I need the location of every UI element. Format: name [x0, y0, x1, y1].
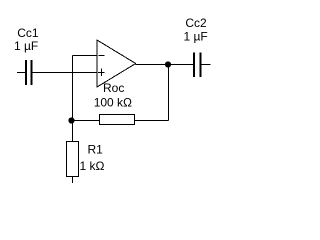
wire R1 bottom stub: [72, 177, 74, 184]
wire feedback vertical (node A): [72, 56, 74, 142]
capacitor Cc2 plates: [193, 53, 195, 78]
wire Cc1 to op-amp non-inverting input: [33, 72, 97, 74]
wire output node down: [168, 65, 170, 121]
wire op-amp output: [136, 64, 193, 66]
svg-text:1 µF: 1 µF: [184, 30, 208, 44]
resistor Roc body: [100, 115, 135, 125]
svg-text:Cc2: Cc2: [185, 16, 207, 30]
op-amp plus symbol: [98, 72, 105, 74]
svg-text:1 µF: 1 µF: [14, 39, 38, 53]
wire Roc left to node A: [72, 120, 100, 122]
svg-text:Cc1: Cc1: [17, 26, 39, 40]
capacitor Cc1 lead left: [17, 72, 25, 74]
junction output node: [165, 61, 171, 67]
capacitor Cc2 lead right: [201, 64, 210, 66]
resistor R1 body: [67, 142, 79, 177]
svg-text:R1: R1: [88, 143, 104, 157]
op-amp minus symbol: [99, 55, 105, 57]
wire inverting input horizontal: [73, 55, 97, 57]
svg-text:Roc: Roc: [103, 81, 124, 95]
junction node A: [68, 117, 74, 123]
svg-text:100 kΩ: 100 kΩ: [94, 96, 132, 110]
wire Roc right: [135, 120, 169, 122]
capacitor Cc1 plates: [25, 60, 27, 85]
svg-text:1 kΩ: 1 kΩ: [80, 159, 105, 173]
op-amp U1 triangle: [97, 40, 136, 87]
